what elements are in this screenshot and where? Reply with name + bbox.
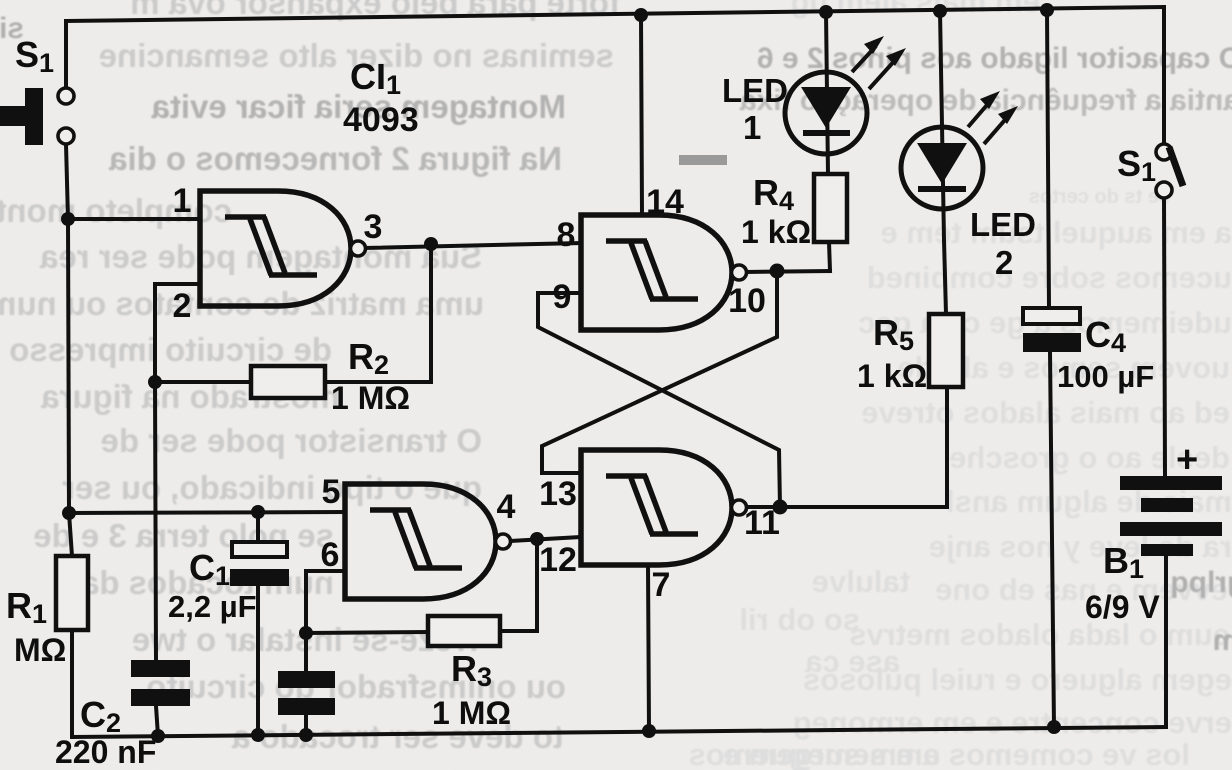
wire R3 right up to pin 4 node: [500, 539, 537, 631]
wire R3 left: [306, 632, 428, 633]
svg-text:3: 3: [364, 208, 383, 246]
svg-text:LED: LED: [722, 72, 788, 109]
svg-text:7: 7: [652, 566, 671, 604]
svg-text:220 nF: 220 nF: [55, 734, 156, 770]
wire C2 to ground: [156, 706, 158, 736]
svg-text:9: 9: [553, 278, 572, 316]
switch S1 left (pushbutton): [0, 88, 74, 145]
wire pin 3 to pin 8: [364, 243, 581, 248]
svg-text:1 MΩ: 1 MΩ: [432, 695, 511, 731]
wire left bus down: [68, 219, 69, 513]
resistor R5: [929, 314, 963, 387]
wire pin 10 node: [745, 271, 830, 272]
wire S1-left to rail: [64, 21, 68, 88]
wire C3 to ground: [304, 715, 308, 735]
wire pin 10 cross-couple to pin 13: [542, 271, 777, 473]
svg-text:agrlpq: agrlpq: [1170, 566, 1232, 599]
svg-text:6/9 V: 6/9 V: [1085, 589, 1160, 625]
wire C1 bottom to ground: [256, 586, 260, 735]
svg-text:8: 8: [557, 216, 576, 254]
wire pin 5 input: [69, 512, 345, 513]
wire LED1 branch: [826, 12, 828, 174]
gate CI1-C (pins 8,9,10): [581, 215, 747, 330]
battery B1: [1120, 476, 1222, 556]
gate CI1-D (pins 13,12,11): [581, 450, 747, 565]
wire C4 to ground: [1050, 352, 1054, 727]
wire R2 left: [155, 380, 251, 384]
svg-text:14: 14: [646, 183, 684, 221]
svg-text:1 MΩ: 1 MΩ: [331, 380, 410, 416]
wire pin 6 loop: [306, 571, 345, 633]
svg-text:Na figura 2 fornecemos o dia: Na figura 2 fornecemos o dia: [108, 140, 562, 177]
capacitor C1 (electrolytic): [230, 542, 289, 586]
resistor R4: [814, 174, 847, 242]
LED 1: [785, 36, 906, 154]
svg-text:12: 12: [539, 541, 577, 579]
resistor R1: [56, 556, 88, 630]
wire R2 branch down to C2: [155, 382, 156, 660]
svg-text:2,2 µF: 2,2 µF: [168, 589, 257, 624]
svg-text:ed ao mais alados otreve: ed ao mais alados otreve: [861, 395, 1230, 430]
svg-text:+: +: [1176, 439, 1198, 481]
resistor R3: [428, 616, 500, 646]
gate CI1-B (pins 5,6,4): [345, 484, 511, 599]
wire node to R1 top: [69, 513, 72, 556]
capacitor C4 (electrolytic): [1023, 308, 1081, 352]
svg-text:10: 10: [728, 282, 766, 320]
svg-text:5: 5: [322, 473, 341, 511]
wire bottom ground rail: [72, 727, 1166, 737]
gate CI1-A (pins 1,2,3): [200, 191, 366, 306]
svg-text:O transistor pode ser de: O transistor pode ser de: [101, 422, 482, 459]
svg-text:em: em: [1213, 624, 1232, 657]
wire pin 7 to ground rail: [648, 565, 649, 731]
bleed-through mirrored text from page back: [0, 0, 620, 755]
wire pin 11 to R5 bottom: [780, 387, 947, 507]
wire S1-left bottom to node A: [66, 144, 68, 219]
resistor R2: [251, 366, 325, 398]
svg-text:13: 13: [539, 475, 577, 513]
LED 2: [901, 91, 1018, 209]
svg-text:a em auquel tsum tem e: a em auquel tsum tem e: [881, 215, 1232, 250]
svg-text:que o tipo indicado, ou ser: que o tipo indicado, ou ser: [62, 469, 482, 506]
capacitor C3: [278, 671, 335, 715]
svg-text:de circuito impresso: de circuito impresso: [9, 331, 332, 368]
wire R4 bottom: [829, 242, 830, 271]
wire top supply rail: [66, 7, 1164, 21]
pin number labels: [173, 182, 780, 604]
wire pin 9 cross-couple to pin 11 node: [538, 293, 780, 507]
wire LED2 branch: [940, 11, 946, 314]
wire R2 right up to pin3 net: [325, 244, 431, 382]
svg-text:11: 11: [744, 504, 780, 542]
wire battery minus to ground rail: [1164, 556, 1168, 727]
wire pin 14 to rail: [641, 15, 642, 215]
bleed dark dash: [679, 155, 727, 165]
svg-text:MΩ: MΩ: [14, 632, 66, 668]
wire S1-right from rail: [1162, 7, 1166, 144]
switch S1 right (SPST): [1156, 144, 1183, 198]
svg-text:ase ca: ase ca: [804, 644, 900, 679]
wire pin 11 output: [745, 505, 780, 509]
svg-text:2: 2: [173, 287, 192, 325]
svg-text:a em surgem e: a em surgem e: [723, 737, 940, 770]
svg-text:4093: 4093: [343, 101, 419, 139]
wire pin 2 loop: [155, 284, 200, 382]
svg-text:1 kΩ: 1 kΩ: [741, 214, 811, 250]
wire R1 bottom to ground rail: [70, 630, 74, 737]
svg-text:eum o lada olados metrvs: eum o lada olados metrvs: [849, 617, 1230, 652]
wire pin 4 to pin 12: [510, 537, 581, 541]
svg-text:1: 1: [743, 109, 761, 146]
capacitor C2: [131, 660, 190, 706]
svg-text:1: 1: [173, 182, 192, 220]
svg-text:so ob ril: so ob ril: [739, 602, 860, 637]
svg-text:6: 6: [321, 536, 340, 574]
svg-text:talulve: talulve: [812, 564, 910, 599]
svg-text:100 µF: 100 µF: [1057, 359, 1154, 394]
wire C1 top: [256, 512, 260, 542]
svg-text:LED: LED: [970, 206, 1036, 243]
svg-text:4: 4: [497, 488, 516, 526]
wire S1-right to battery plus: [1164, 198, 1165, 476]
svg-text:1 kΩ: 1 kΩ: [857, 358, 927, 394]
wire pin 1 input: [68, 217, 200, 221]
wire C4 branch top: [1047, 10, 1049, 308]
svg-text:2: 2: [995, 244, 1013, 281]
wire node to C3: [304, 633, 308, 671]
svg-text:completo montag: completo montag: [0, 192, 232, 229]
